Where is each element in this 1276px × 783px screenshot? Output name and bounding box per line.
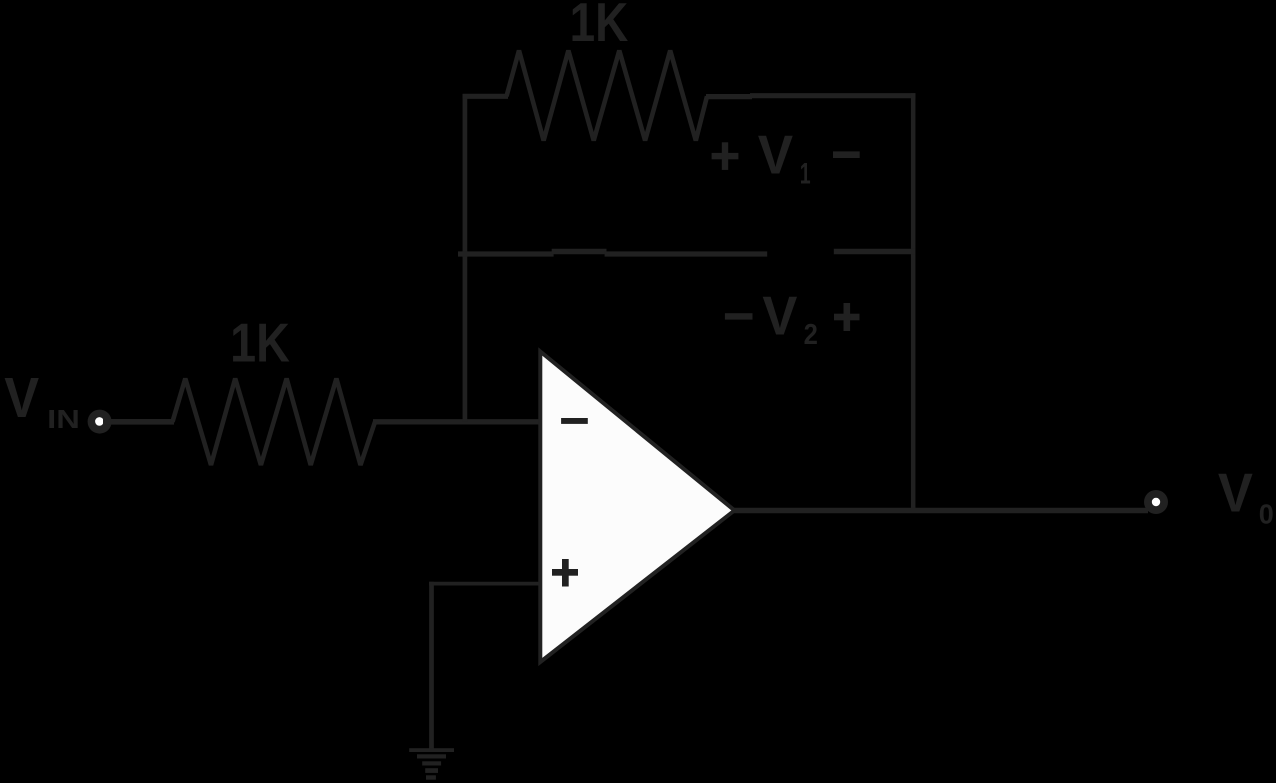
label V2 polarity: minus: [725, 313, 753, 319]
svg-text:1: 1: [800, 157, 811, 190]
wire left vertical (feedback left leg): [463, 94, 468, 422]
wire mid segment A: [458, 251, 554, 256]
wire mid segment C: [605, 251, 768, 256]
wire top left to R1: [463, 94, 508, 99]
node VIN input terminal: [88, 410, 112, 434]
op-amp inverting input marker (minus): [561, 418, 588, 424]
label V2: [762, 285, 817, 350]
label VIN: [4, 366, 80, 434]
label VO: [1218, 463, 1274, 530]
label 1K (input resistor): [230, 312, 290, 373]
ground symbol: [409, 748, 454, 780]
op-amp U1 triangle: [540, 352, 734, 663]
label V1 with polarity: plus: [712, 142, 739, 170]
svg-text:V: V: [4, 366, 39, 429]
label V2 polarity: plus: [834, 303, 860, 331]
wire top right segment: [750, 93, 915, 98]
label 1K (feedback resistor): [570, 0, 629, 53]
op-amp non-inverting input marker (plus): [552, 559, 578, 587]
svg-text:V: V: [758, 125, 793, 186]
wire right vertical (feedback right leg): [911, 93, 916, 510]
wire op-amp output to VO terminal: [733, 508, 1148, 514]
wire ground vertical: [429, 582, 434, 750]
svg-text:1K: 1K: [230, 312, 290, 373]
svg-text:V: V: [762, 285, 797, 346]
wire mid segment B: [552, 249, 607, 255]
wire R1 to right vertical: [706, 94, 752, 99]
wire R2 to op-amp inverting input: [373, 419, 540, 424]
svg-text:0: 0: [1259, 498, 1274, 530]
label V1: [758, 125, 811, 191]
svg-text:V: V: [1218, 463, 1253, 524]
wire mid segment D: [834, 249, 915, 255]
resistor R2 1K (input): [173, 379, 376, 466]
svg-text:IN: IN: [47, 405, 80, 434]
resistor R1 1K (feedback): [507, 51, 708, 141]
svg-text:1K: 1K: [570, 0, 629, 53]
wire VIN to R2: [103, 419, 174, 425]
wire non-inverting input: [429, 582, 540, 586]
svg-text:2: 2: [804, 318, 818, 351]
label V1 polarity: minus: [833, 151, 860, 158]
node VO output terminal: [1144, 490, 1168, 514]
